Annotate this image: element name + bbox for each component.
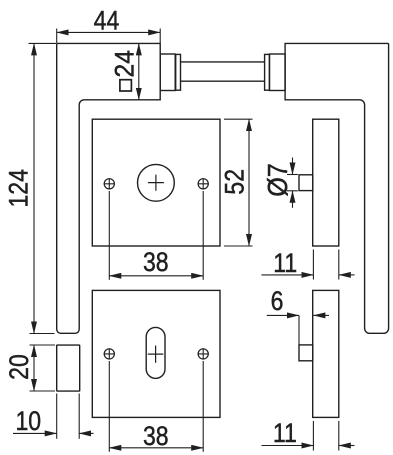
- dim 11 upper arrow left: [262, 274, 314, 276]
- right handle outline: [285, 43, 389, 333]
- rose 1 front square: [92, 119, 220, 246]
- dim dia7 tick bottom: [287, 190, 298, 192]
- left spindle ring: [176, 54, 181, 90]
- dim 11 lower extension left: [312, 421, 314, 451]
- rose 1 central cross: [148, 175, 164, 191]
- dim 10 arrow right: [79, 432, 93, 434]
- svg-text:6: 6: [271, 287, 284, 316]
- svg-text:11: 11: [273, 419, 297, 448]
- dim sq24 line: [138, 43, 140, 99]
- dim dia7 tick top: [287, 174, 298, 176]
- left grip lower section (20mm piece): [57, 345, 80, 391]
- svg-text:10: 10: [15, 408, 41, 437]
- dim 124 extension bottom: [30, 333, 55, 335]
- dim 44 extension right: [159, 29, 161, 44]
- dim 124 line: [33, 43, 35, 333]
- dim 44 extension left: [56, 29, 58, 44]
- svg-text:44: 44: [94, 7, 120, 36]
- dim 38 upper extension right: [202, 191, 204, 280]
- dim 38 upper extension left: [108, 191, 110, 280]
- svg-text:11: 11: [273, 249, 297, 278]
- spindle rod bottom line: [181, 80, 265, 82]
- svg-text:20: 20: [6, 354, 35, 380]
- rose 1 right screw: [198, 179, 208, 189]
- dim 38 lower extension left: [108, 361, 110, 452]
- dim 11 upper arrow right: [339, 274, 355, 276]
- rose 2 keyhole cross: [148, 346, 164, 363]
- dim 20 extension top: [30, 344, 56, 346]
- rose 1 side view rectangle: [313, 119, 339, 246]
- dim 11 upper extension left: [312, 250, 314, 280]
- dim 6 extension: [298, 315, 300, 344]
- dim 52 extension top: [224, 118, 253, 120]
- dim 11 upper extension right: [338, 250, 340, 280]
- dim dia7 arrow top: [292, 158, 294, 175]
- dim 11 lower extension right: [338, 421, 340, 451]
- dim 44 line: [57, 31, 161, 33]
- dim dia7 arrow bottom: [292, 191, 294, 208]
- left handle outline: [57, 43, 161, 333]
- right spindle ring: [265, 54, 270, 90]
- svg-text:38: 38: [143, 249, 169, 278]
- svg-text:38: 38: [143, 422, 169, 451]
- dim 124 extension top: [29, 42, 57, 44]
- rose 2 front square: [92, 290, 220, 417]
- rose 1 spindle stub: [299, 175, 313, 191]
- dim 10 arrow left: [13, 432, 57, 434]
- dim 10 extension left: [56, 394, 58, 439]
- dim 20 extension bottom: [30, 390, 56, 392]
- dim 52 extension bottom: [224, 245, 253, 247]
- dim 10 extension right: [78, 394, 80, 439]
- rose 2 spindle stub: [299, 345, 313, 361]
- rose 2 left screw: [104, 349, 114, 359]
- rose 2 keyhole oval: [146, 327, 165, 378]
- svg-text:52: 52: [221, 169, 250, 195]
- dim 11 lower arrow left: [262, 445, 314, 447]
- rose 2 right screw: [198, 349, 208, 359]
- dim sq24 square symbol: [120, 80, 131, 91]
- dim 52 line: [248, 119, 250, 246]
- rose 1 central circle: [138, 164, 175, 201]
- spindle rod top line: [181, 61, 265, 63]
- dim 38 lower line: [109, 447, 203, 449]
- dim 20 line: [33, 345, 35, 391]
- dim 11 lower arrow right: [339, 445, 355, 447]
- dim 6 arrow left: [267, 314, 299, 316]
- dim 6 arrow right: [313, 314, 329, 316]
- rose 2 side view rectangle: [313, 290, 339, 417]
- right spindle collar: [270, 54, 286, 91]
- svg-text:Ø7: Ø7: [262, 163, 294, 197]
- dim 38 upper line: [109, 275, 203, 277]
- dim 38 lower extension right: [202, 361, 204, 452]
- left spindle collar: [160, 54, 175, 91]
- svg-text:124: 124: [5, 169, 34, 208]
- rose 1 left screw: [104, 179, 114, 189]
- svg-text:24: 24: [111, 50, 140, 77]
